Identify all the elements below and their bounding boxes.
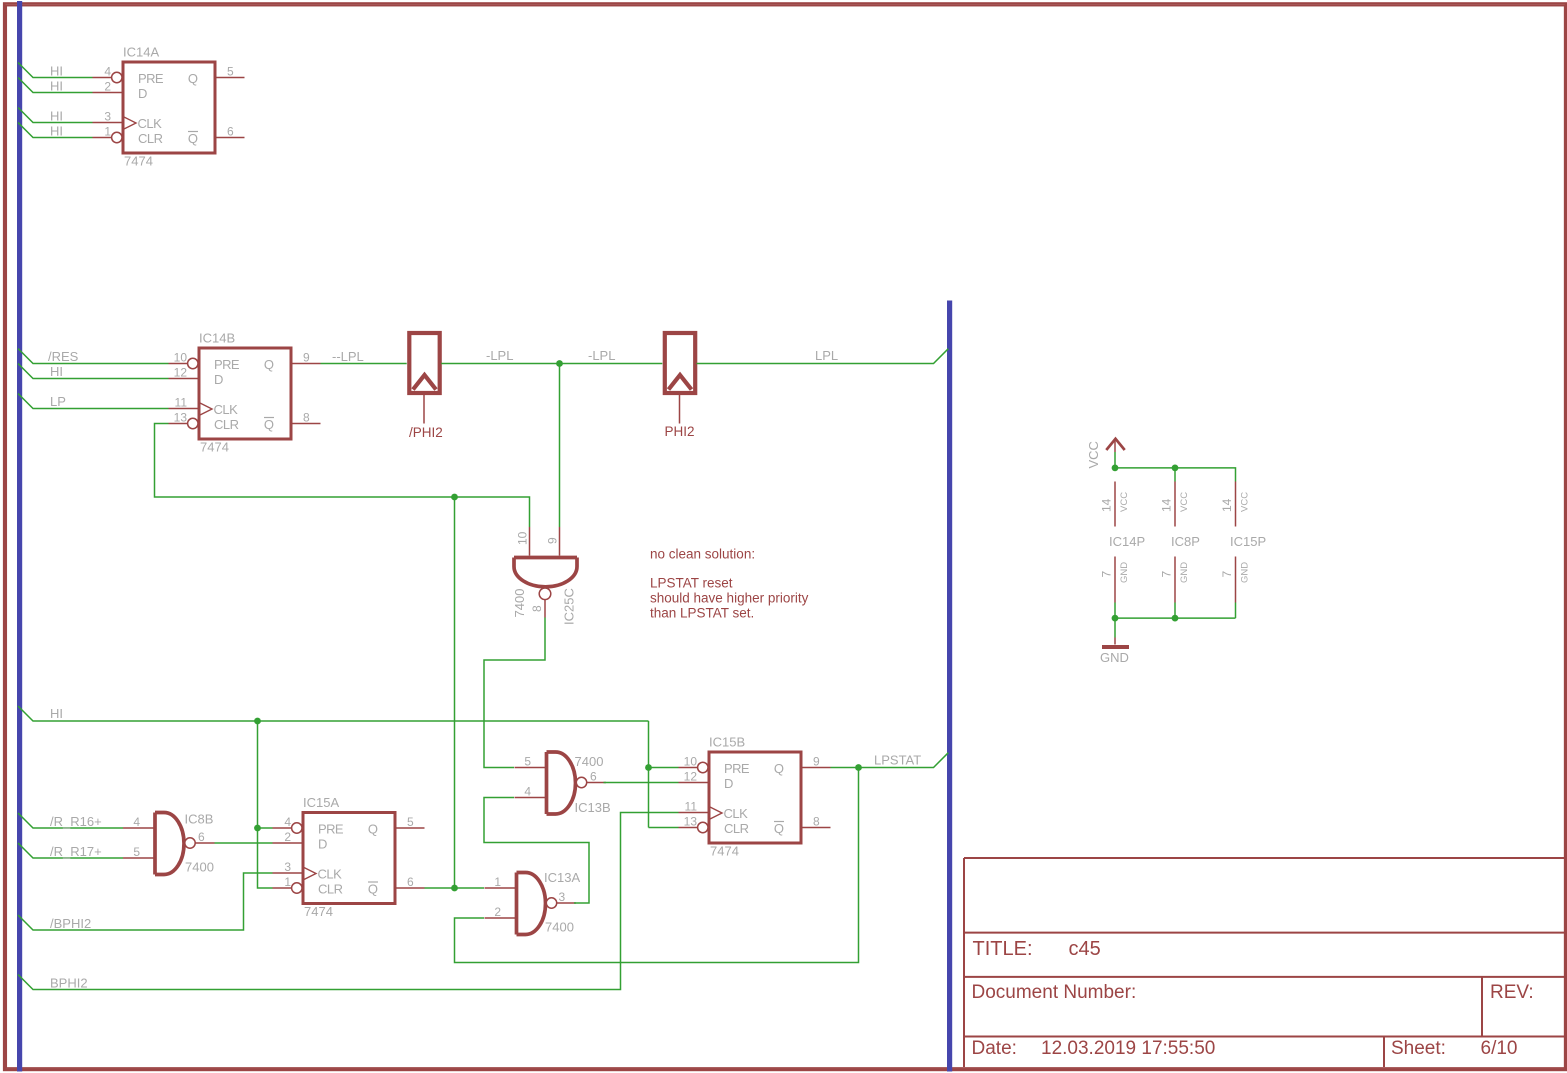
svg-text:14: 14: [1220, 498, 1234, 512]
svg-text:14: 14: [1160, 498, 1174, 512]
svg-text:Q: Q: [188, 131, 198, 146]
svg-text:IC15A: IC15A: [303, 795, 339, 810]
svg-text:PHI2: PHI2: [665, 424, 695, 439]
svg-text:3: 3: [284, 860, 291, 874]
svg-text:VCC: VCC: [1119, 492, 1130, 512]
svg-text:13: 13: [684, 815, 698, 829]
svg-text:IC14A: IC14A: [123, 45, 159, 60]
svg-text:9: 9: [303, 351, 310, 365]
svg-text:D: D: [318, 837, 327, 852]
svg-text:8: 8: [303, 411, 310, 425]
svg-text:BPHI2: BPHI2: [50, 976, 88, 991]
svg-text:CLR: CLR: [724, 821, 749, 836]
svg-text:IC13A: IC13A: [544, 870, 580, 885]
svg-text:12: 12: [174, 366, 188, 380]
svg-text:CLR: CLR: [138, 131, 163, 146]
svg-text:5: 5: [227, 65, 234, 79]
svg-text:7474: 7474: [710, 844, 739, 859]
svg-text:should have higher priority: should have higher priority: [650, 591, 809, 606]
svg-text:2: 2: [284, 830, 291, 844]
svg-text:GND: GND: [1119, 562, 1130, 583]
svg-text:/R_R17+: /R_R17+: [50, 844, 102, 859]
svg-text:IC13B: IC13B: [575, 800, 611, 815]
svg-text:IC14P: IC14P: [1109, 534, 1145, 549]
svg-text:PRE: PRE: [318, 822, 344, 837]
svg-text:Q: Q: [368, 822, 378, 837]
svg-text:10: 10: [516, 531, 530, 545]
svg-text:IC8B: IC8B: [185, 812, 214, 827]
svg-text:7400: 7400: [575, 754, 604, 769]
svg-text:CLK: CLK: [138, 116, 163, 131]
svg-text:CLK: CLK: [724, 806, 749, 821]
svg-text:13: 13: [174, 411, 188, 425]
svg-text:5: 5: [407, 815, 414, 829]
svg-text:HI: HI: [50, 64, 63, 79]
svg-text:Sheet:: Sheet:: [1391, 1038, 1446, 1059]
svg-text:7: 7: [1160, 571, 1174, 578]
svg-text:7400: 7400: [185, 860, 214, 875]
svg-text:PRE: PRE: [138, 71, 164, 86]
svg-text:7: 7: [1220, 571, 1234, 578]
svg-text:6: 6: [198, 830, 205, 844]
svg-text:GND: GND: [1240, 562, 1251, 583]
svg-text:HI: HI: [50, 364, 63, 379]
svg-text:11: 11: [175, 396, 188, 410]
svg-text:7474: 7474: [124, 154, 153, 169]
svg-text:6: 6: [590, 770, 597, 784]
svg-text:LP: LP: [50, 394, 66, 409]
svg-text:/R_R16+: /R_R16+: [50, 814, 102, 829]
svg-text:5: 5: [133, 845, 140, 859]
svg-text:4: 4: [133, 815, 140, 829]
svg-text:HI: HI: [50, 109, 63, 124]
svg-text:Q: Q: [264, 357, 274, 372]
svg-text:2: 2: [494, 905, 501, 919]
svg-text:3: 3: [559, 890, 566, 904]
svg-text:12: 12: [684, 770, 698, 784]
svg-text:7400: 7400: [512, 589, 527, 618]
svg-text:6: 6: [407, 875, 414, 889]
svg-text:HI: HI: [50, 79, 63, 94]
svg-text:/BPHI2: /BPHI2: [50, 916, 91, 931]
svg-text:12.03.2019 17:55:50: 12.03.2019 17:55:50: [1041, 1038, 1215, 1059]
svg-text:Q: Q: [368, 882, 378, 897]
svg-text:LPSTAT: LPSTAT: [874, 753, 921, 768]
svg-text:D: D: [138, 86, 147, 101]
svg-text:14: 14: [1100, 498, 1114, 512]
svg-text:Date:: Date:: [972, 1038, 1017, 1059]
svg-text:4: 4: [524, 785, 531, 799]
svg-text:7474: 7474: [304, 904, 333, 919]
svg-text:IC14B: IC14B: [199, 331, 235, 346]
svg-text:1: 1: [284, 875, 291, 889]
svg-text:7474: 7474: [200, 440, 229, 455]
svg-text:Document Number:: Document Number:: [972, 982, 1137, 1003]
svg-text:/PHI2: /PHI2: [409, 425, 443, 440]
svg-text:TITLE:: TITLE:: [973, 938, 1033, 960]
svg-text:Q: Q: [774, 761, 784, 776]
svg-text:10: 10: [684, 755, 698, 769]
svg-text:REV:: REV:: [1490, 982, 1534, 1003]
svg-text:CLR: CLR: [214, 417, 239, 432]
svg-text:LPSTAT reset: LPSTAT reset: [650, 576, 733, 591]
svg-text:1: 1: [104, 125, 111, 139]
svg-text:9: 9: [813, 755, 820, 769]
svg-text:GND: GND: [1179, 562, 1190, 583]
svg-text:D: D: [214, 372, 223, 387]
svg-text:Q: Q: [188, 71, 198, 86]
svg-text:--LPL: --LPL: [332, 349, 364, 364]
svg-text:CLR: CLR: [318, 882, 343, 897]
svg-text:6/10: 6/10: [1481, 1038, 1518, 1059]
svg-text:2: 2: [104, 80, 111, 94]
svg-text:PRE: PRE: [724, 761, 750, 776]
svg-text:LPL: LPL: [815, 348, 838, 363]
svg-text:HI: HI: [50, 706, 63, 721]
svg-text:no clean solution:: no clean solution:: [650, 547, 755, 562]
svg-text:5: 5: [524, 755, 531, 769]
svg-text:VCC: VCC: [1179, 492, 1190, 512]
svg-text:VCC: VCC: [1086, 441, 1101, 468]
svg-text:-LPL: -LPL: [588, 348, 615, 363]
svg-text:3: 3: [104, 110, 111, 124]
svg-text:6: 6: [227, 125, 234, 139]
svg-text:IC15P: IC15P: [1230, 534, 1266, 549]
svg-text:CLK: CLK: [214, 402, 239, 417]
svg-text:10: 10: [174, 351, 188, 365]
svg-text:GND: GND: [1100, 650, 1129, 665]
svg-text:9: 9: [546, 537, 560, 544]
svg-text:/RES: /RES: [48, 349, 79, 364]
svg-text:8: 8: [813, 815, 820, 829]
svg-text:4: 4: [284, 815, 291, 829]
svg-text:4: 4: [104, 65, 111, 79]
svg-text:7: 7: [1100, 571, 1114, 578]
svg-text:11: 11: [685, 800, 698, 814]
svg-text:IC15B: IC15B: [709, 735, 745, 750]
svg-text:c45: c45: [1069, 938, 1101, 960]
svg-text:IC25C: IC25C: [562, 588, 577, 625]
svg-text:PRE: PRE: [214, 357, 240, 372]
svg-text:CLK: CLK: [318, 867, 343, 882]
svg-text:Q: Q: [264, 417, 274, 432]
svg-text:than LPSTAT set.: than LPSTAT set.: [650, 606, 754, 621]
svg-text:1: 1: [494, 875, 501, 889]
svg-text:D: D: [724, 776, 733, 791]
svg-text:IC8P: IC8P: [1171, 534, 1200, 549]
svg-text:7400: 7400: [545, 920, 574, 935]
svg-text:HI: HI: [50, 124, 63, 139]
svg-text:VCC: VCC: [1240, 492, 1251, 512]
svg-text:Q: Q: [774, 821, 784, 836]
svg-text:8: 8: [530, 605, 544, 612]
svg-text:-LPL: -LPL: [486, 348, 513, 363]
